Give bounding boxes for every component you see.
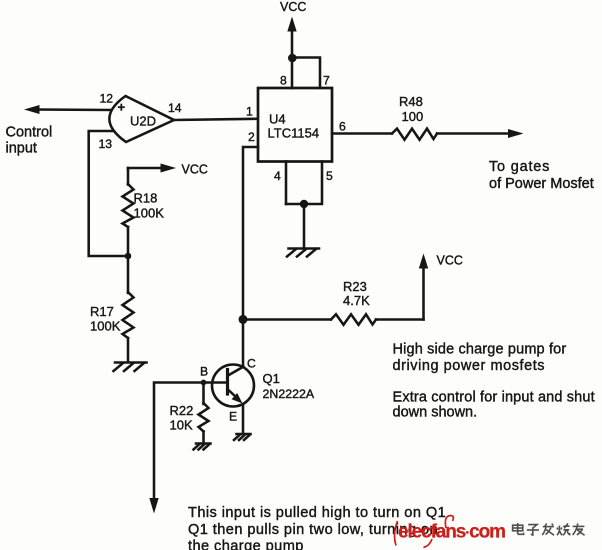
svg-text:U4: U4: [269, 112, 286, 127]
svg-text:Control: Control: [6, 125, 53, 141]
svg-text:10K: 10K: [170, 418, 193, 433]
IC U4 LTC1154: [258, 88, 332, 162]
glyph shao: [557, 523, 570, 535]
svg-text:R17: R17: [90, 304, 114, 319]
svg-text:14: 14: [168, 101, 182, 115]
node pin4/pin5 junction: [300, 200, 308, 208]
svg-text:6: 6: [339, 120, 346, 134]
svg-text:5: 5: [326, 169, 333, 183]
ground under R22: [194, 444, 211, 450]
wire U4 pin5 loop: [286, 162, 322, 205]
power VCC right (R23): [419, 254, 463, 320]
node B (pin2/R23/collector): [239, 315, 248, 324]
label Control input: [6, 125, 53, 157]
wire op-amp pin13 to node A: [89, 131, 126, 256]
svg-text:Q1: Q1: [263, 371, 280, 386]
svg-text:R23: R23: [343, 279, 367, 294]
label To gates of Power Mosfet: [489, 159, 594, 192]
node base junction: [201, 380, 207, 386]
power VCC top: [280, 0, 306, 56]
svg-text:7: 7: [323, 74, 330, 88]
wire U4 pin8 up to VCC node: [291, 58, 294, 88]
glyph you: [573, 523, 585, 535]
svg-text:100: 100: [402, 109, 424, 124]
svg-text:4.7K: 4.7K: [343, 293, 370, 308]
transistor Q1: [206, 365, 315, 407]
svg-text:100K: 100K: [90, 319, 121, 334]
svg-text:R18: R18: [134, 191, 158, 206]
ground under emitter: [234, 434, 251, 440]
svg-text:input: input: [6, 141, 37, 157]
svg-text:elecfans·com: elecfans·com: [398, 522, 505, 543]
svg-text:C: C: [247, 357, 256, 371]
svg-text:R22: R22: [170, 403, 194, 418]
svg-text:driving power mosfets: driving power mosfets: [393, 358, 546, 374]
svg-text:VCC: VCC: [437, 254, 463, 268]
svg-text:12: 12: [100, 92, 114, 106]
svg-text:To gates: To gates: [489, 159, 550, 175]
svg-text:2: 2: [248, 130, 255, 144]
svg-text:the charge pump: the charge pump: [188, 539, 304, 550]
wire node B to collector: [242, 320, 245, 367]
resistor R18: [123, 168, 165, 253]
ground under U4: [287, 249, 319, 257]
svg-text:+: +: [118, 100, 126, 115]
wire emitter to ground: [242, 405, 245, 434]
resistor R23: [243, 279, 424, 325]
svg-text:Extra control for input and sh: Extra control for input and shut: [393, 390, 595, 406]
label High side charge pump note: [393, 342, 567, 375]
ground under R17: [114, 363, 147, 372]
svg-text:8: 8: [280, 74, 287, 88]
op-amp U2D: [109, 96, 174, 142]
svg-text:This input is pulled high to t: This input is pulled high to turn on Q1: [188, 505, 446, 521]
wire control-input with arrow: [24, 105, 111, 114]
svg-text:VCC: VCC: [182, 163, 208, 177]
wire base input with down arrow: [149, 383, 203, 514]
svg-text:1: 1: [246, 105, 253, 119]
svg-text:High side charge pump for: High side charge pump for: [393, 342, 567, 358]
power VCC mid (R18): [128, 163, 208, 177]
svg-text:LTC1154: LTC1154: [268, 126, 320, 141]
label Extra control note: [393, 390, 595, 421]
svg-text:VCC: VCC: [280, 0, 306, 14]
wire R48 to gates arrow: [437, 129, 524, 138]
svg-text:100K: 100K: [134, 206, 165, 221]
svg-text:R48: R48: [399, 94, 423, 109]
glyph dian: [513, 523, 524, 534]
watermark elecfans.com: [395, 516, 585, 548]
resistor R48: [332, 94, 437, 140]
svg-text:of Power Mosfet: of Power Mosfet: [489, 176, 594, 192]
wire junction to ground: [303, 204, 306, 247]
label bottom note: [188, 505, 446, 550]
svg-text:4: 4: [274, 169, 281, 183]
wire U4 pin4 down: [285, 162, 288, 205]
node A (R18/R17/pin13): [125, 253, 132, 260]
svg-text:U2D: U2D: [130, 114, 156, 129]
wire U4 pin2 to node B: [243, 147, 258, 315]
node pin8/pin7 junction: [288, 54, 297, 63]
svg-text:13: 13: [99, 137, 113, 151]
svg-text:down shown.: down shown.: [393, 405, 478, 421]
resistor R17: [90, 256, 134, 362]
svg-text:2N2222A: 2N2222A: [263, 387, 315, 401]
glyph fa: [542, 523, 554, 535]
svg-text:B: B: [200, 365, 208, 379]
wire U4 pin7 loop to VCC node: [293, 58, 320, 89]
glyph zi: [527, 525, 539, 535]
svg-text:E: E: [229, 410, 237, 424]
wire op-amp output to U4 pin1: [174, 119, 258, 120]
resistor R22: [170, 383, 209, 443]
